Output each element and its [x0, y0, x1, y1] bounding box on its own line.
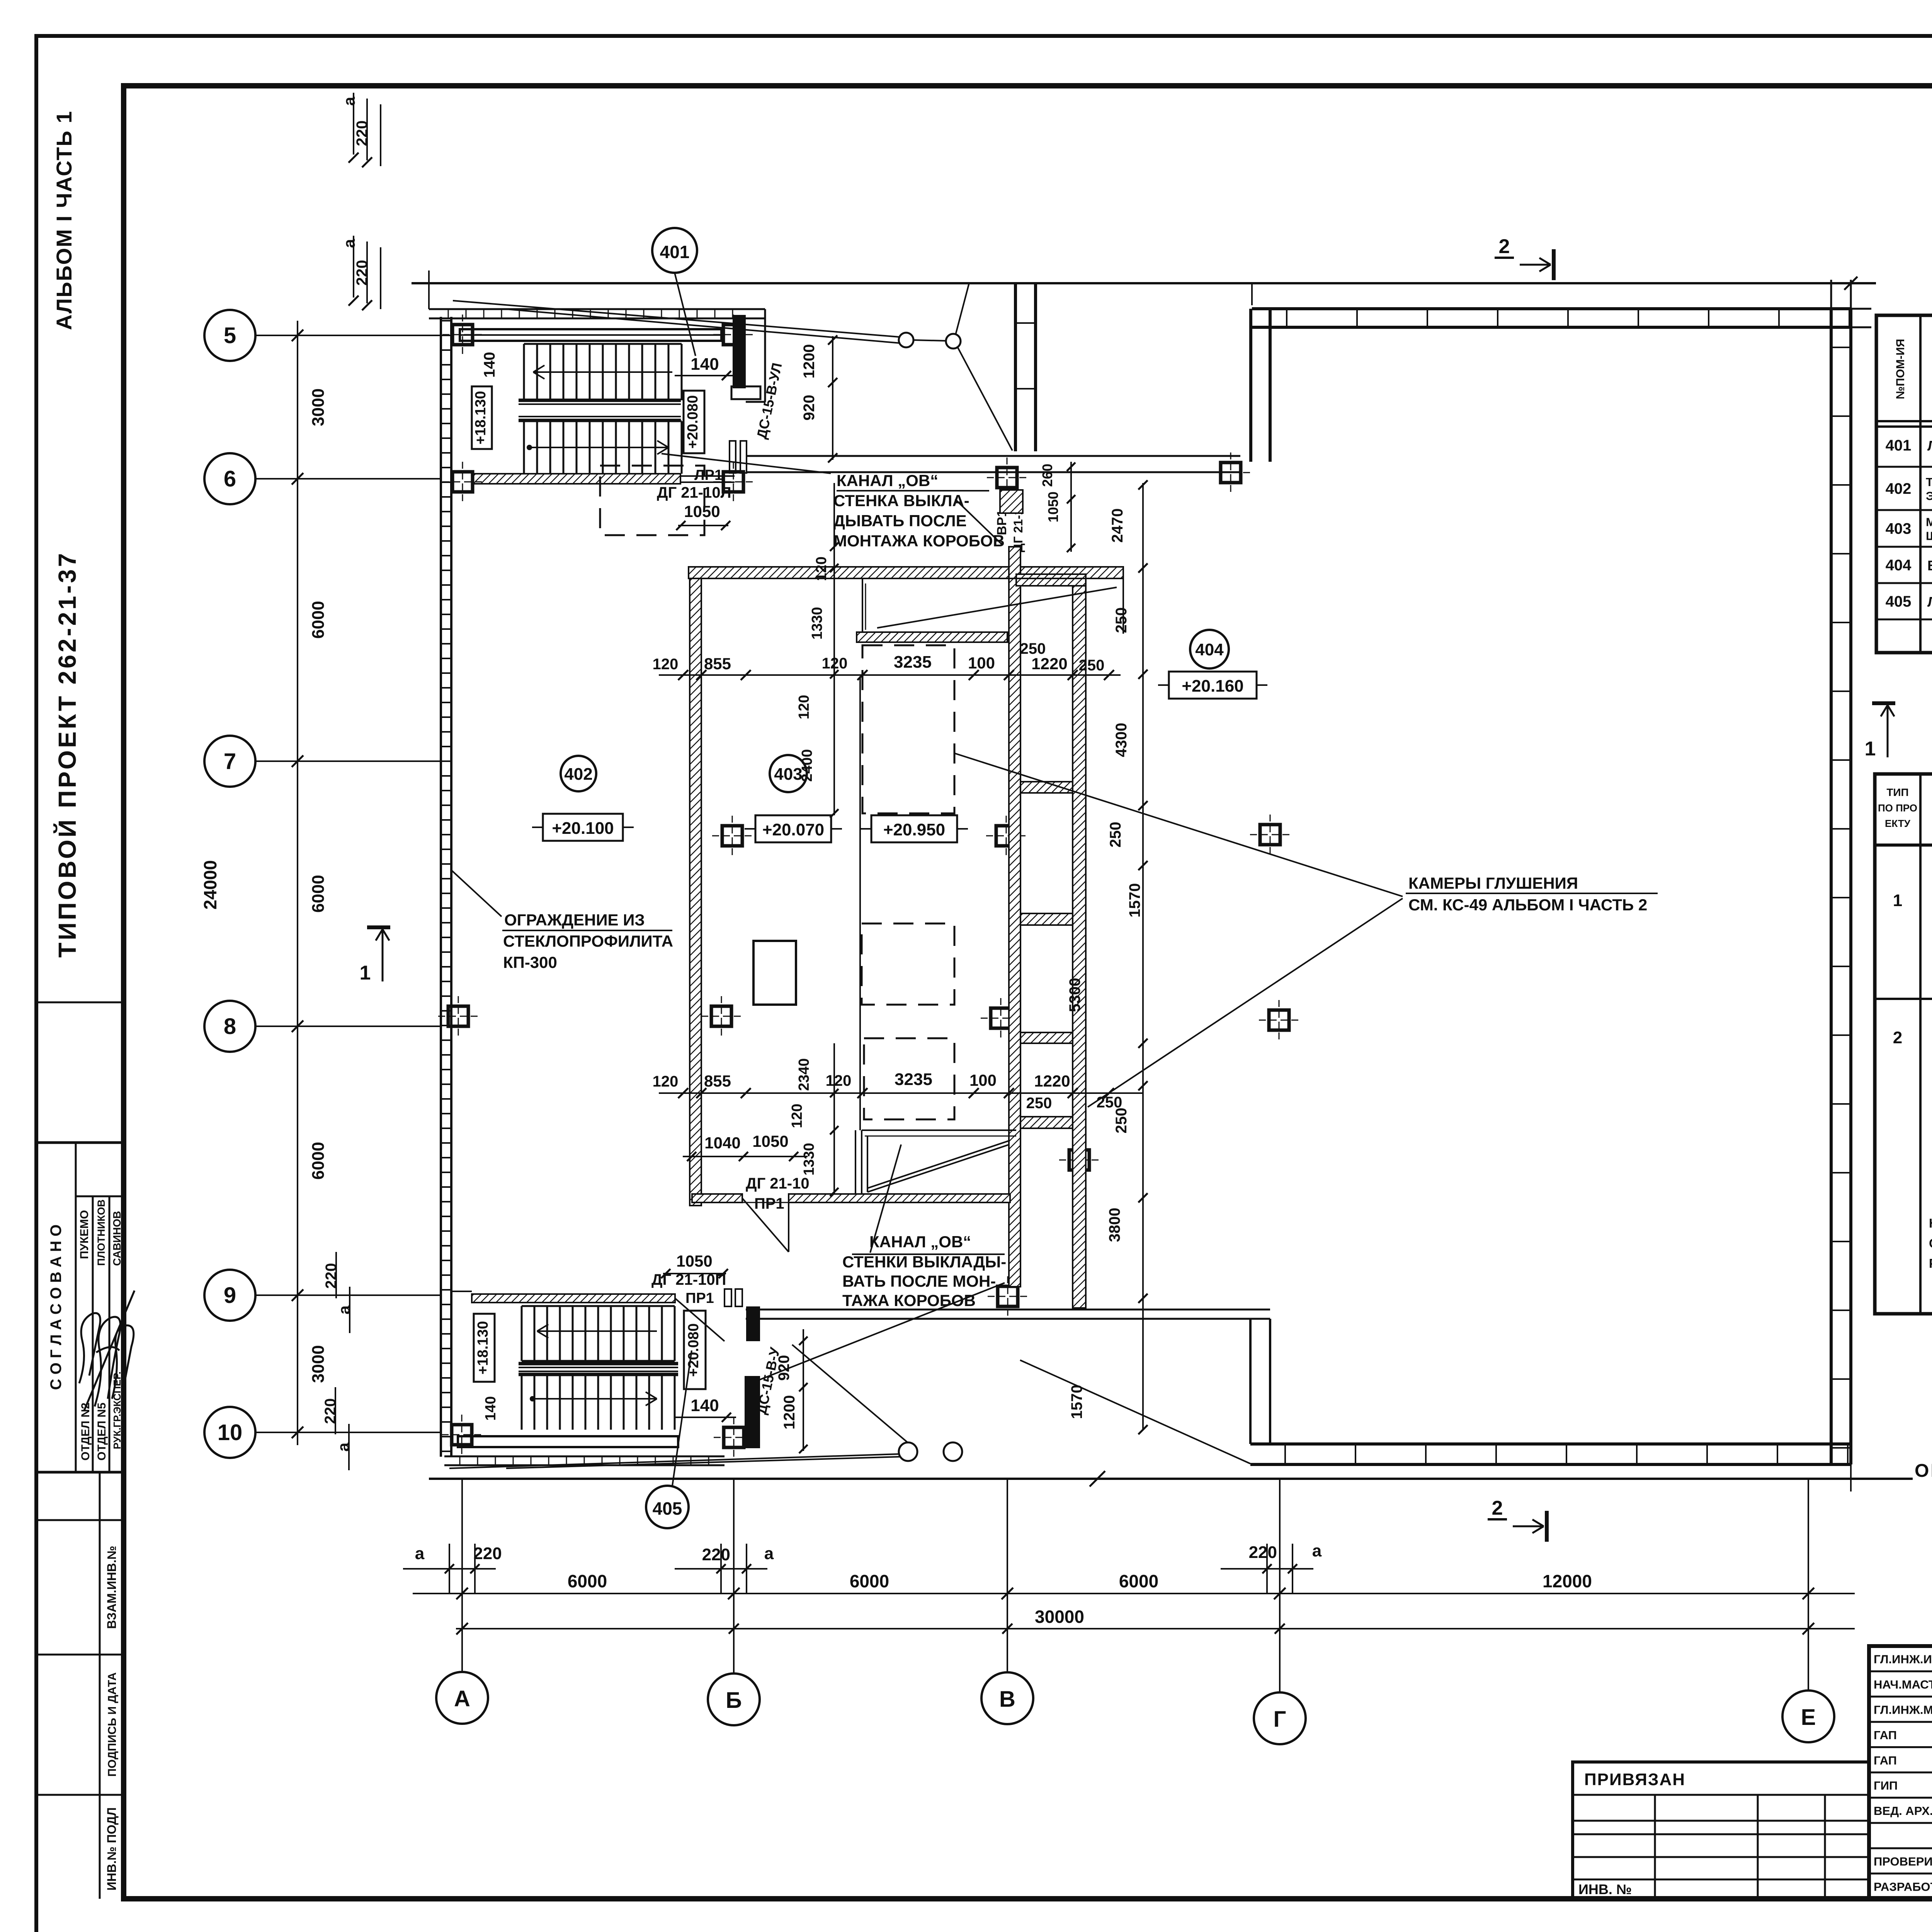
svg-text:250: 250 — [1107, 822, 1124, 848]
svg-text:+18.130: +18.130 — [475, 1321, 491, 1374]
svg-text:401: 401 — [1886, 437, 1912, 454]
svg-text:МОНТАЖА КОРОБОВ: МОНТАЖА КОРОБОВ — [833, 532, 1005, 550]
svg-text:2: 2 — [1893, 1028, 1902, 1047]
svg-text:ЭТАЖ: ЭТАЖ — [1926, 489, 1932, 503]
svg-text:КАМЕРЫ ГЛУШЕНИЯ: КАМЕРЫ ГЛУШЕНИЯ — [1408, 874, 1578, 892]
svg-text:404: 404 — [1886, 557, 1912, 574]
svg-text:120: 120 — [813, 556, 830, 581]
svg-text:ЛЕСТНИЦА N 2: ЛЕСТНИЦА N 2 — [1927, 594, 1932, 610]
svg-text:1330: 1330 — [801, 1143, 817, 1176]
svg-text:ОТДЕЛ N2: ОТДЕЛ N2 — [79, 1403, 92, 1461]
svg-text:+20.080: +20.080 — [685, 395, 701, 449]
svg-text:ПРИВЯЗАН: ПРИВЯЗАН — [1584, 1770, 1685, 1789]
svg-text:a: a — [415, 1544, 425, 1563]
svg-text:100: 100 — [968, 654, 995, 672]
svg-text:6: 6 — [224, 466, 236, 492]
svg-text:Г: Г — [1274, 1707, 1286, 1732]
svg-text:250: 250 — [1026, 1095, 1052, 1112]
svg-text:1570: 1570 — [1068, 1385, 1085, 1419]
svg-text:12000: 12000 — [1543, 1571, 1592, 1591]
svg-text:СМ. КС-49 АЛЬБОМ I ЧАСТЬ 2: СМ. КС-49 АЛЬБОМ I ЧАСТЬ 2 — [1408, 896, 1647, 914]
svg-text:МАШИННОЕ ПОМЕ-: МАШИННОЕ ПОМЕ- — [1926, 515, 1932, 529]
svg-text:220: 220 — [1249, 1543, 1277, 1562]
svg-text:НАЧ.МАСТ.: НАЧ.МАСТ. — [1874, 1678, 1932, 1691]
svg-text:ПЛОТНИКОВ: ПЛОТНИКОВ — [95, 1199, 107, 1266]
svg-text:140: 140 — [481, 352, 498, 378]
svg-text:ГАП: ГАП — [1874, 1753, 1897, 1767]
svg-text:403: 403 — [774, 765, 802, 784]
svg-text:НА СИНТЕТИЧЕСКОЙ: НА СИНТЕТИЧЕСКОЙ — [1929, 1216, 1932, 1230]
svg-text:ПРОВЕРИЛ: ПРОВЕРИЛ — [1874, 1855, 1932, 1868]
svg-text:+20.100: +20.100 — [552, 819, 614, 838]
svg-text:5300: 5300 — [1066, 978, 1083, 1012]
svg-text:СТЕКЛОПРОФИЛИТА: СТЕКЛОПРОФИЛИТА — [503, 932, 673, 950]
svg-text:3235: 3235 — [895, 1070, 932, 1089]
svg-text:a: a — [764, 1544, 774, 1563]
svg-text:КАНАЛ „ОВ“: КАНАЛ „ОВ“ — [837, 471, 938, 490]
svg-text:ГЛ.ИНЖ.МАС: ГЛ.ИНЖ.МАС — [1874, 1703, 1932, 1717]
svg-text:855: 855 — [704, 655, 731, 673]
svg-text:КАНАЛ „ОВ“: КАНАЛ „ОВ“ — [869, 1233, 971, 1251]
svg-text:120: 120 — [826, 1072, 852, 1089]
svg-text:АЛЬБОМ I ЧАСТЬ 1: АЛЬБОМ I ЧАСТЬ 1 — [52, 111, 76, 330]
svg-text:3235: 3235 — [894, 653, 932, 672]
svg-text:ТАЖА КОРОБОВ: ТАЖА КОРОБОВ — [842, 1291, 976, 1310]
svg-text:ДГ 21-10: ДГ 21-10 — [746, 1175, 810, 1192]
svg-text:ВАТЬ ПОСЛЕ МОН-: ВАТЬ ПОСЛЕ МОН- — [842, 1272, 996, 1290]
svg-text:ЩЕНИЕ ЛИФТОВ: ЩЕНИЕ ЛИФТОВ — [1926, 529, 1932, 543]
svg-text:ПР1: ПР1 — [754, 1195, 784, 1212]
svg-text:1: 1 — [1893, 891, 1902, 910]
svg-text:220: 220 — [473, 1544, 502, 1563]
svg-text:6000: 6000 — [850, 1571, 889, 1591]
svg-text:405: 405 — [1886, 593, 1912, 610]
svg-text:10: 10 — [218, 1420, 243, 1445]
svg-text:30000: 30000 — [1035, 1607, 1084, 1627]
svg-text:ТЕХНИЧЕСКИЙ: ТЕХНИЧЕСКИЙ — [1926, 475, 1932, 489]
svg-text:120: 120 — [822, 655, 848, 672]
svg-text:2470: 2470 — [1109, 509, 1126, 543]
svg-text:+20.070: +20.070 — [762, 820, 824, 839]
svg-text:220: 220 — [323, 1263, 340, 1289]
svg-text:260: 260 — [1039, 464, 1055, 487]
svg-text:ЛЕСТНИЦА N 1: ЛЕСТНИЦА N 1 — [1927, 438, 1932, 454]
svg-text:+20.950: +20.950 — [883, 820, 945, 839]
svg-text:А: А — [454, 1686, 470, 1711]
svg-text:120: 120 — [789, 1104, 805, 1128]
svg-text:4300: 4300 — [1113, 723, 1130, 757]
svg-text:Е: Е — [1801, 1705, 1816, 1730]
svg-text:В: В — [999, 1687, 1015, 1712]
svg-text:1050: 1050 — [676, 1252, 712, 1270]
svg-text:403: 403 — [1886, 520, 1912, 537]
svg-text:402: 402 — [564, 765, 592, 784]
svg-text:404: 404 — [1195, 640, 1224, 659]
svg-text:ВЗАМ.ИНВ.№: ВЗАМ.ИНВ.№ — [105, 1546, 119, 1629]
svg-text:РУБЕРОИДОМ: РУБЕРОИДОМ — [1929, 1256, 1932, 1270]
svg-text:САВИНОВ: САВИНОВ — [111, 1211, 123, 1266]
svg-text:№ПОМ-ИЯ: №ПОМ-ИЯ — [1894, 339, 1907, 399]
svg-text:ВЕНТКАМЕРА N 1: ВЕНТКАМЕРА N 1 — [1927, 558, 1932, 573]
svg-text:24000: 24000 — [200, 860, 220, 910]
svg-text:+18.130: +18.130 — [473, 391, 489, 444]
svg-text:1040: 1040 — [704, 1134, 740, 1152]
svg-text:9: 9 — [224, 1283, 236, 1308]
svg-text:С О Г Л А С О В А Н О: С О Г Л А С О В А Н О — [48, 1225, 65, 1390]
svg-text:250: 250 — [1079, 657, 1105, 674]
svg-text:220: 220 — [354, 121, 371, 146]
svg-text:1220: 1220 — [1031, 655, 1067, 673]
svg-text:2: 2 — [1499, 235, 1510, 258]
svg-text:1050: 1050 — [684, 502, 720, 520]
svg-text:ЕКТУ: ЕКТУ — [1885, 818, 1911, 829]
svg-text:ПО ПРО: ПО ПРО — [1878, 802, 1917, 814]
svg-text:220: 220 — [354, 260, 371, 286]
svg-text:ТИПОВОЙ ПРОЕКТ 262-21-37: ТИПОВОЙ ПРОЕКТ 262-21-37 — [53, 551, 81, 958]
svg-text:СТЕНКА ВЫКЛА-: СТЕНКА ВЫКЛА- — [833, 492, 969, 510]
svg-text:ГИП: ГИП — [1874, 1779, 1898, 1793]
svg-text:120: 120 — [796, 695, 812, 719]
svg-text:ЛР1: ЛР1 — [694, 467, 723, 483]
svg-text:1200: 1200 — [801, 344, 818, 379]
svg-text:1330: 1330 — [809, 607, 825, 640]
svg-text:405: 405 — [653, 1498, 682, 1519]
svg-text:ВЕД. АРХ.: ВЕД. АРХ. — [1874, 1804, 1932, 1818]
svg-text:8: 8 — [224, 1014, 236, 1039]
svg-text:1: 1 — [1865, 738, 1876, 760]
svg-text:7: 7 — [224, 749, 236, 774]
svg-text:ИНВ. №: ИНВ. № — [1578, 1881, 1632, 1897]
svg-text:6000: 6000 — [568, 1571, 607, 1591]
svg-text:6000: 6000 — [1119, 1571, 1158, 1591]
svg-text:+20.160: +20.160 — [1182, 677, 1243, 696]
svg-text:ОТДЕЛ N5: ОТДЕЛ N5 — [95, 1403, 108, 1461]
svg-text:ПУКЕМО: ПУКЕМО — [78, 1210, 91, 1259]
svg-text:СТЕНКИ ВЫКЛАДЫ-: СТЕНКИ ВЫКЛАДЫ- — [842, 1253, 1006, 1271]
svg-text:220: 220 — [322, 1398, 339, 1424]
svg-text:6000: 6000 — [309, 875, 328, 913]
svg-text:a: a — [340, 97, 358, 106]
svg-text:Б: Б — [726, 1688, 742, 1713]
svg-text:1050: 1050 — [752, 1132, 788, 1150]
svg-text:401: 401 — [660, 242, 690, 262]
svg-text:РАЗРАБОТ.: РАЗРАБОТ. — [1874, 1880, 1932, 1893]
svg-text:2: 2 — [1492, 1497, 1503, 1519]
svg-text:КП-300: КП-300 — [503, 953, 557, 971]
svg-text:120: 120 — [653, 656, 679, 673]
svg-text:5: 5 — [224, 323, 236, 348]
svg-text:ДЫВАТЬ ПОСЛЕ: ДЫВАТЬ ПОСЛЕ — [833, 512, 967, 530]
svg-text:+20.080: +20.080 — [685, 1323, 702, 1377]
svg-text:ПОДПИСЬ И ДАТА: ПОДПИСЬ И ДАТА — [106, 1672, 119, 1777]
svg-text:ОГРАЖДЕНИЕ ИЗ: ОГРАЖДЕНИЕ ИЗ — [504, 911, 645, 929]
svg-text:РУК.ГР.ЭКСПЕР.: РУК.ГР.ЭКСПЕР. — [111, 1371, 123, 1449]
svg-text:3800: 3800 — [1106, 1208, 1123, 1242]
svg-text:1200: 1200 — [781, 1395, 798, 1430]
svg-text:6000: 6000 — [309, 1142, 328, 1180]
svg-text:ГЛ.ИНЖ.ИН.: ГЛ.ИНЖ.ИН. — [1874, 1653, 1932, 1666]
svg-text:920: 920 — [801, 395, 818, 421]
svg-text:1220: 1220 — [1034, 1072, 1070, 1090]
svg-text:855: 855 — [704, 1072, 731, 1090]
svg-text:1570: 1570 — [1126, 883, 1143, 918]
svg-text:402: 402 — [1886, 480, 1912, 497]
svg-text:ГАП: ГАП — [1874, 1728, 1897, 1742]
svg-text:220: 220 — [702, 1545, 730, 1564]
svg-text:ТИП: ТИП — [1886, 786, 1908, 798]
svg-text:ИНВ.№ ПОДЛ: ИНВ.№ ПОДЛ — [105, 1807, 119, 1890]
svg-text:ПР1: ПР1 — [685, 1290, 714, 1306]
svg-text:250: 250 — [1113, 1108, 1130, 1134]
svg-text:250: 250 — [1113, 607, 1130, 633]
svg-text:ДГ 21-10Л: ДГ 21-10Л — [657, 484, 731, 501]
svg-text:120: 120 — [653, 1073, 679, 1090]
svg-text:a: a — [1312, 1541, 1322, 1560]
svg-text:250: 250 — [1020, 640, 1046, 657]
svg-text:100: 100 — [969, 1071, 997, 1089]
svg-text:3000: 3000 — [309, 1345, 328, 1383]
svg-text:3000: 3000 — [309, 388, 328, 426]
svg-text:2340: 2340 — [796, 1058, 812, 1091]
svg-text:140: 140 — [483, 1396, 499, 1420]
svg-text:ОБЩИЕ ПРИМЕЧАНИЯ СМ. НА ЧЕ: ОБЩИЕ ПРИМЕЧАНИЯ СМ. НА ЧЕРТ. „АСО-7“, „… — [1915, 1461, 1932, 1481]
svg-text:1: 1 — [360, 962, 371, 984]
svg-text:140: 140 — [690, 355, 719, 374]
svg-text:СВЯЗКЕ, ОБЕРНУТАЯ: СВЯЗКЕ, ОБЕРНУТАЯ — [1929, 1236, 1932, 1250]
svg-text:140: 140 — [690, 1396, 719, 1415]
svg-text:1050: 1050 — [1045, 492, 1061, 522]
svg-text:6000: 6000 — [309, 601, 328, 639]
svg-text:a: a — [340, 239, 358, 248]
svg-text:2400: 2400 — [799, 749, 815, 782]
